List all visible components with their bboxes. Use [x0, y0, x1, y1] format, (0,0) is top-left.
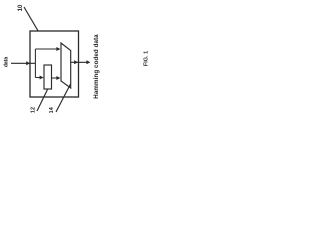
svg-text:data: data: [3, 57, 9, 68]
svg-text:FIG. 1: FIG. 1: [144, 51, 150, 66]
svg-text:Hamming coded data: Hamming coded data: [93, 34, 100, 99]
svg-text:14: 14: [49, 106, 55, 113]
svg-text:10: 10: [18, 4, 24, 11]
svg-text:12: 12: [30, 107, 36, 113]
